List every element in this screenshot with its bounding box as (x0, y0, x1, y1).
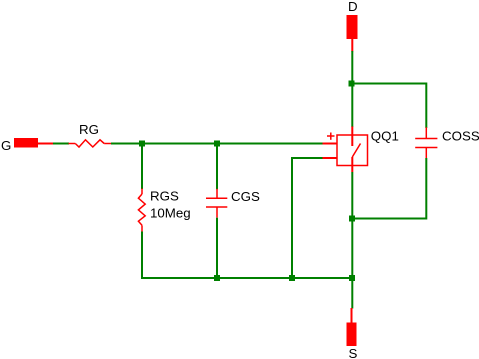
wire CGS branch lower (216, 218, 218, 279)
switch QQ1 (323, 126, 368, 172)
resistor RGS (138, 189, 145, 232)
wire bottom rail (141, 277, 353, 279)
wire control minus branch (292, 158, 323, 278)
svg-text:10Meg: 10Meg (150, 206, 191, 221)
wire gate rail left (53, 143, 69, 145)
wire CGS branch upper (216, 144, 218, 190)
junction bottom/CGS node (214, 275, 220, 281)
svg-text:S: S (349, 346, 358, 359)
resistor RG (69, 140, 112, 147)
junction drain/COSS node (349, 81, 355, 87)
port D (347, 15, 358, 52)
wire COSS bottom branch (352, 158, 426, 219)
svg-text:CGS: CGS (231, 189, 260, 204)
junction gate/CGS node (214, 141, 220, 147)
wire RGS branch lower (141, 232, 143, 280)
junction gate/RGS node (139, 141, 145, 147)
junction bottom/source node (349, 275, 355, 281)
capacitor COSS (415, 127, 437, 158)
junction bottom/control node (289, 275, 295, 281)
port S (347, 308, 357, 346)
junction source/COSS node (349, 216, 355, 222)
wire RGS branch upper (141, 144, 143, 190)
svg-text:COSS: COSS (442, 129, 479, 144)
wire gate rail (111, 143, 323, 145)
wire drain (351, 51, 353, 127)
capacitor CGS (206, 189, 227, 218)
svg-text:G: G (1, 138, 11, 153)
svg-text:QQ1: QQ1 (371, 128, 399, 143)
svg-text:D: D (348, 0, 358, 14)
wire source (351, 172, 353, 309)
svg-text:RG: RG (79, 122, 99, 137)
port G (14, 138, 53, 148)
svg-text:RGS: RGS (150, 188, 179, 203)
wire COSS top branch (352, 84, 426, 129)
